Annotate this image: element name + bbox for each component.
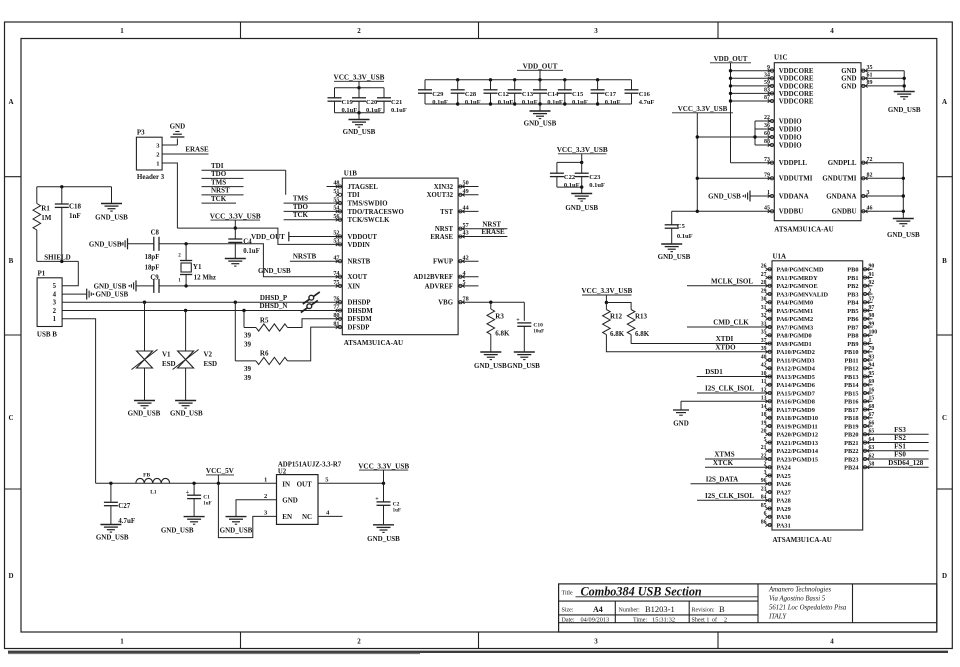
svg-text:PB7: PB7 <box>847 324 858 331</box>
svg-text:VDDCORE: VDDCORE <box>779 68 814 75</box>
svg-text:PA3/PGMNVALID: PA3/PGMNVALID <box>777 291 829 298</box>
svg-text:85: 85 <box>761 503 767 509</box>
svg-text:C28: C28 <box>465 91 477 98</box>
ground GND_USB below cap bank <box>539 104 541 111</box>
net CMD_CLK wire to PA7 <box>687 326 772 328</box>
svg-text:2: 2 <box>53 308 57 315</box>
capacitor C29 <box>424 80 426 90</box>
resistor R13 6.8K <box>606 303 631 310</box>
svg-text:A4: A4 <box>593 605 603 614</box>
ground GND_USB (U1C top right) <box>894 91 915 93</box>
differential pair marker on DHSD_P <box>303 292 320 304</box>
svg-text:GND_USB: GND_USB <box>658 253 691 261</box>
svg-text:PA27: PA27 <box>777 489 791 496</box>
svg-text:GND: GND <box>673 419 689 427</box>
svg-text:19: 19 <box>761 420 767 426</box>
svg-text:0.1uF: 0.1uF <box>677 233 693 240</box>
capacitor C23 <box>581 162 583 173</box>
svg-text:DFSDM: DFSDM <box>348 316 373 323</box>
svg-text:PB5: PB5 <box>847 308 858 315</box>
svg-text:GND: GND <box>282 497 298 505</box>
svg-text:TMS: TMS <box>211 178 226 186</box>
svg-text:PA28: PA28 <box>777 498 791 505</box>
svg-text:PA1/PGMRDY: PA1/PGMRDY <box>777 275 819 282</box>
svg-text:FS2: FS2 <box>894 434 906 442</box>
svg-text:40: 40 <box>761 354 767 360</box>
svg-text:U1A: U1A <box>773 252 787 260</box>
ground GND_USB below C27 <box>100 524 121 526</box>
svg-text:PA25: PA25 <box>777 473 791 480</box>
svg-text:1: 1 <box>53 316 57 323</box>
svg-text:USB B: USB B <box>37 330 57 338</box>
svg-text:GND_USB: GND_USB <box>94 282 127 290</box>
svg-text:ESD: ESD <box>204 360 218 368</box>
svg-text:PA18/PGMD10: PA18/PGMD10 <box>777 415 819 422</box>
svg-text:61: 61 <box>867 73 873 79</box>
svg-text:14: 14 <box>761 404 767 410</box>
wire U1C GND pins to ground bus (top right) <box>861 70 904 72</box>
svg-text:18: 18 <box>761 412 767 418</box>
crystal Y1 12 Mhz <box>185 244 187 261</box>
svg-text:VDDBU: VDDBU <box>779 209 804 216</box>
svg-text:I2S_DATA: I2S_DATA <box>706 475 738 483</box>
ground GND_USB below C5 <box>661 243 682 245</box>
capacitor C15 <box>564 80 566 90</box>
wire U1C GNDPLL/GNDUTMI/GNDANA/GNDBU to ground bus <box>861 162 903 164</box>
svg-text:0.1uF: 0.1uF <box>564 182 580 189</box>
svg-text:TDO/TRACESWO: TDO/TRACESWO <box>348 209 404 216</box>
svg-text:GND_USB: GND_USB <box>128 410 161 418</box>
wire VDDBU pin 45 to VCC bus and C5 <box>672 210 775 212</box>
differential pair marker on DHSD_N <box>301 300 318 312</box>
U1B pin 5 stub <box>458 285 478 287</box>
svg-text:NC: NC <box>302 513 312 521</box>
svg-text:2: 2 <box>264 493 267 500</box>
svg-text:MCLK_ISOL: MCLK_ISOL <box>711 277 753 285</box>
svg-text:GND: GND <box>170 123 186 131</box>
svg-text:39: 39 <box>244 340 252 348</box>
capacitor C20 <box>358 88 360 98</box>
ground port GND_USB at VDDANA pin 1 <box>750 195 774 197</box>
svg-text:NRSTB: NRSTB <box>348 259 371 266</box>
svg-text:4: 4 <box>53 292 57 299</box>
svg-text:VDDIO: VDDIO <box>779 126 803 133</box>
svg-text:4.7uF: 4.7uF <box>639 99 655 106</box>
svg-text:26: 26 <box>761 264 767 270</box>
svg-text:PB13: PB13 <box>844 374 858 381</box>
U1B pin 50 stub <box>458 186 478 188</box>
svg-text:NRST: NRST <box>435 226 454 233</box>
svg-text:27: 27 <box>761 272 767 278</box>
connector P3 Header 3 <box>136 137 162 170</box>
svg-text:ERASE: ERASE <box>185 145 209 153</box>
U1B pin 48 stub <box>327 186 343 188</box>
svg-text:GNDBU: GNDBU <box>832 209 857 216</box>
svg-text:3: 3 <box>594 27 598 35</box>
svg-text:C15: C15 <box>572 91 584 98</box>
svg-text:2: 2 <box>357 638 361 646</box>
svg-text:C5: C5 <box>677 223 686 230</box>
svg-text:C20: C20 <box>366 99 377 106</box>
svg-text:VCC_3.3V_USB: VCC_3.3V_USB <box>210 212 261 220</box>
wire cap bank bottom rail <box>425 103 632 105</box>
svg-text:DFSDP: DFSDP <box>348 325 370 332</box>
wire VBUS from P1 pin 1 to power rail <box>62 319 96 484</box>
svg-text:XOUT: XOUT <box>348 274 368 281</box>
ground GND_USB at U2 pin 2 <box>226 516 247 518</box>
ground GND_USB below C2 <box>373 524 394 526</box>
capacitor C18 1nF <box>61 187 63 204</box>
net FS2 wire from PB21 <box>863 442 929 444</box>
svg-text:R1: R1 <box>41 205 50 213</box>
net I2S_CLK_ISOL wire to PA28 <box>697 499 772 501</box>
svg-text:ATSAM3U1CA-AU: ATSAM3U1CA-AU <box>773 536 832 544</box>
svg-text:C17: C17 <box>605 91 617 98</box>
svg-text:6.8K: 6.8K <box>495 330 510 338</box>
ground port GND_USB at P1 pin 4 <box>86 289 88 300</box>
capacitor C13 <box>514 80 516 90</box>
svg-text:Combo384 USB Section: Combo384 USB Section <box>581 584 702 598</box>
U1B pin 44 stub <box>458 210 478 212</box>
net DSD1 wire to PA13 <box>697 376 772 378</box>
svg-text:VDDPLL: VDDPLL <box>779 160 808 167</box>
svg-text:C19: C19 <box>342 99 354 106</box>
svg-text:C29: C29 <box>432 91 444 98</box>
capacitor C14 <box>539 80 541 90</box>
svg-text:PB2: PB2 <box>847 283 858 290</box>
svg-text:DHSD_N: DHSD_N <box>259 302 287 310</box>
svg-text:4: 4 <box>830 27 834 35</box>
svg-text:PA14/PGMD6: PA14/PGMD6 <box>777 382 815 389</box>
svg-text:VDDIO: VDDIO <box>779 142 803 149</box>
svg-text:18pF: 18pF <box>145 254 160 261</box>
wire VDDIO bracket <box>754 121 756 145</box>
wire C22-C23 bottom rail <box>557 186 582 188</box>
svg-text:GND_USB: GND_USB <box>220 527 253 535</box>
svg-text:C10: C10 <box>533 322 543 328</box>
svg-text:GND_USB: GND_USB <box>96 291 129 299</box>
ground GND_USB below V2 <box>175 400 196 402</box>
svg-text:VCC_3.3V_USB: VCC_3.3V_USB <box>358 462 409 470</box>
svg-text:PA13/PGMD5: PA13/PGMD5 <box>777 374 815 381</box>
net XTDO wire to PA10 <box>606 351 772 353</box>
svg-text:NRST: NRST <box>482 220 501 228</box>
svg-text:C21: C21 <box>391 99 402 106</box>
svg-text:PB4: PB4 <box>847 300 859 307</box>
wire 5V rail from P1 pin 1 <box>96 482 277 484</box>
svg-text:ATSAM3U1CA-AU: ATSAM3U1CA-AU <box>344 339 403 347</box>
svg-text:GND_USB: GND_USB <box>474 362 507 370</box>
svg-text:PB24: PB24 <box>844 465 859 472</box>
wire SHIELD to P1 pin 5 <box>62 261 78 285</box>
svg-text:39: 39 <box>244 374 252 382</box>
svg-text:PA19/PGMD11: PA19/PGMD11 <box>777 423 818 430</box>
svg-text:6: 6 <box>764 511 767 517</box>
svg-text:PB23: PB23 <box>844 456 858 463</box>
inductor L1 FB ferrite bead <box>136 478 170 483</box>
svg-text:U1C: U1C <box>774 54 788 62</box>
capacitor C9 <box>136 285 154 287</box>
net FS0 wire from PB23 <box>863 458 929 460</box>
scan shadow at sheet bottom edge <box>8 651 948 653</box>
svg-text:D: D <box>942 572 947 580</box>
title block frame <box>559 584 937 632</box>
wire VDD_OUT bus to VDDPLL pin 73 <box>731 162 775 164</box>
svg-text:ATSAM3U1CA-AU: ATSAM3U1CA-AU <box>774 225 833 233</box>
svg-text:86: 86 <box>761 519 767 525</box>
svg-text:PA22/PGMD14: PA22/PGMD14 <box>777 448 819 455</box>
svg-text:Amanero Technologies: Amanero Technologies <box>768 587 831 594</box>
net I2S_DATA wire to PA26 <box>691 483 773 485</box>
wire VCC to VDDUTMI pin 79 <box>697 177 774 179</box>
svg-text:5: 5 <box>53 283 57 290</box>
svg-text:P3: P3 <box>137 129 145 137</box>
op-amp U1C ATSAM3U1CA-AU power section box <box>774 63 861 221</box>
svg-text:23: 23 <box>761 486 767 492</box>
svg-text:JTAGSEL: JTAGSEL <box>348 184 379 191</box>
capacitor C21 <box>383 88 385 98</box>
net XTMS wire to PA23 <box>705 458 772 460</box>
resistor R1 1M <box>36 187 38 204</box>
svg-text:SHIELD: SHIELD <box>44 254 70 262</box>
net ERASE wire <box>458 236 507 238</box>
capacitor C27 4.7uF <box>110 483 112 502</box>
svg-text:FB: FB <box>143 472 150 478</box>
svg-text:VBG: VBG <box>438 300 453 307</box>
svg-text:CMD_CLK: CMD_CLK <box>713 319 749 327</box>
svg-text:B: B <box>9 257 14 265</box>
svg-text:D: D <box>8 572 13 580</box>
svg-text:I2S_CLK_ISOL: I2S_CLK_ISOL <box>705 385 754 393</box>
svg-text:56121 Loc Ospedaletto Pisa: 56121 Loc Ospedaletto Pisa <box>769 605 847 612</box>
svg-text:ITALY: ITALY <box>768 614 787 621</box>
wire DHSD_P from P1 pin 3 to U1B pin 76 <box>62 301 342 303</box>
capacitor C2 1uF <box>383 483 385 502</box>
regulator U2 ADP151AUJZ-3.3-R7 <box>277 475 319 525</box>
svg-text:PB0: PB0 <box>847 267 858 274</box>
capacitor C12 <box>490 80 492 90</box>
svg-text:35: 35 <box>867 65 873 71</box>
svg-text:PB6: PB6 <box>847 316 858 323</box>
net NRST wire <box>458 228 507 230</box>
svg-text:GND_USB: GND_USB <box>95 214 128 222</box>
wire VBG from U1B pin 78 <box>458 301 524 303</box>
svg-text:PA12/PGMD4: PA12/PGMD4 <box>777 366 816 373</box>
svg-text:3: 3 <box>594 638 598 646</box>
svg-text:TMS: TMS <box>293 195 308 203</box>
capacitor C22 <box>556 162 558 173</box>
svg-text:FWUP: FWUP <box>433 259 453 266</box>
svg-text:46: 46 <box>867 206 873 212</box>
svg-text:1uF: 1uF <box>203 502 211 507</box>
wire TCK to pin 56 <box>284 219 343 221</box>
svg-text:89: 89 <box>867 80 873 86</box>
svg-text:1: 1 <box>264 476 267 483</box>
svg-text:39: 39 <box>244 331 252 339</box>
wire P1 pin 4 to ground port <box>62 293 87 295</box>
svg-text:XTMS: XTMS <box>714 451 734 459</box>
svg-text:DSD64_128: DSD64_128 <box>888 459 924 467</box>
svg-text:GNDANA: GNDANA <box>826 193 856 200</box>
svg-text:2: 2 <box>724 617 727 623</box>
svg-text:PA24: PA24 <box>777 465 792 472</box>
svg-text:PA30: PA30 <box>777 514 791 521</box>
svg-text:PB17: PB17 <box>844 407 858 414</box>
resistor R6 39 <box>234 302 236 361</box>
svg-text:82: 82 <box>867 173 873 179</box>
svg-text:ESD: ESD <box>162 360 176 368</box>
svg-text:0.1uF: 0.1uF <box>465 99 481 106</box>
svg-text:PB8: PB8 <box>847 333 858 340</box>
svg-text:R13: R13 <box>635 313 648 321</box>
svg-text:C16: C16 <box>639 91 651 98</box>
svg-text:DHSDP: DHSDP <box>348 300 371 307</box>
svg-text:GND_USB: GND_USB <box>565 204 598 212</box>
svg-text:PB10: PB10 <box>844 349 858 356</box>
svg-text:Header 3: Header 3 <box>137 173 165 181</box>
svg-text:ADP151AUJZ-3.3-R7: ADP151AUJZ-3.3-R7 <box>278 461 342 468</box>
svg-text:VDDOUT: VDDOUT <box>348 234 378 241</box>
svg-text:20: 20 <box>761 429 767 435</box>
svg-text:ERASE: ERASE <box>481 228 505 236</box>
svg-text:PB21: PB21 <box>844 440 858 447</box>
resistor R5 39 <box>243 311 245 328</box>
svg-text:0.1uF: 0.1uF <box>522 99 538 106</box>
svg-text:10uF: 10uF <box>533 329 544 334</box>
svg-text:DHSDM: DHSDM <box>348 308 374 315</box>
svg-text:VCC_3.3V_USB: VCC_3.3V_USB <box>557 146 608 154</box>
svg-text:42: 42 <box>761 363 767 369</box>
svg-text:TDO: TDO <box>211 170 227 178</box>
svg-text:PB15: PB15 <box>844 390 858 397</box>
svg-text:GND_USB: GND_USB <box>89 240 122 248</box>
svg-text:Sheet 1: Sheet 1 <box>692 617 710 623</box>
svg-text:1M: 1M <box>41 214 52 222</box>
svg-text:C12: C12 <box>498 91 509 98</box>
capacitor C28 <box>457 80 459 90</box>
wire VDD_OUT bus to VDDCORE pins <box>730 63 732 163</box>
svg-text:TCK/SWCLK: TCK/SWCLK <box>348 217 391 224</box>
svg-text:Revision:: Revision: <box>692 607 715 613</box>
svg-text:A: A <box>8 98 13 106</box>
svg-text:PB14: PB14 <box>844 382 859 389</box>
svg-text:GND_USB: GND_USB <box>161 527 194 535</box>
svg-text:XIN32: XIN32 <box>434 184 454 191</box>
svg-text:VCC_3.3V_USB: VCC_3.3V_USB <box>334 74 385 82</box>
ground GND_USB below C20 <box>358 113 360 119</box>
svg-text:FS1: FS1 <box>894 442 906 450</box>
resistor R12 6.8K <box>605 303 607 310</box>
svg-text:NRSTB: NRSTB <box>293 253 317 261</box>
svg-text:Title: Title <box>562 590 573 596</box>
svg-text:PB12: PB12 <box>844 366 858 373</box>
svg-text:21: 21 <box>761 445 767 451</box>
svg-text:VDDCORE: VDDCORE <box>779 76 814 83</box>
svg-text:PB16: PB16 <box>844 399 858 406</box>
svg-text:OUT: OUT <box>297 480 313 488</box>
svg-text:VDDCORE: VDDCORE <box>779 98 814 105</box>
svg-text:C: C <box>8 414 13 422</box>
ground GND_USB right of C18 <box>111 187 113 203</box>
svg-text:PA11/PGMD3: PA11/PGMD3 <box>777 357 815 364</box>
svg-text:R3: R3 <box>495 313 504 321</box>
svg-text:Y1: Y1 <box>193 263 202 271</box>
transistor V2 ESD diode <box>185 311 187 352</box>
U1B pin 4 stub <box>458 276 478 278</box>
svg-text:PA6/PGMM2: PA6/PGMM2 <box>777 316 814 323</box>
svg-text:PA21/PGMD13: PA21/PGMD13 <box>777 440 819 447</box>
svg-text:18pF: 18pF <box>145 264 160 271</box>
svg-text:DSD1: DSD1 <box>705 368 723 376</box>
svg-text:GND_USB: GND_USB <box>708 192 741 200</box>
svg-text:PA16/PGMD8: PA16/PGMD8 <box>777 399 815 406</box>
svg-text:PA15/PGMD7: PA15/PGMD7 <box>777 390 815 397</box>
net MCLK_ISOL wire to PA2 <box>687 285 772 287</box>
svg-text:32: 32 <box>761 313 767 319</box>
wire VCC_3.3V_USB rail to VDDIN pin 53 <box>177 228 342 244</box>
svg-text:VDDIO: VDDIO <box>779 118 803 125</box>
svg-text:0.1uF: 0.1uF <box>498 99 514 106</box>
net XTDI wire to PA9 <box>631 343 772 345</box>
svg-text:R6: R6 <box>260 350 269 358</box>
svg-text:72: 72 <box>867 157 873 163</box>
svg-text:29: 29 <box>761 288 767 294</box>
svg-text:DHSD_P: DHSD_P <box>260 294 288 302</box>
svg-text:TCK: TCK <box>211 195 227 203</box>
svg-text:GNDPLL: GNDPLL <box>828 160 857 167</box>
svg-text:GND_USB: GND_USB <box>170 410 203 418</box>
svg-text:PA26: PA26 <box>777 481 791 488</box>
capacitor C4 <box>234 228 236 239</box>
wire TMS to pin 55 <box>284 202 343 204</box>
node VCC_3.3V_USB rail (C19-C21 top) <box>335 87 385 89</box>
svg-text:NRST: NRST <box>211 187 230 195</box>
resistor R3 6.8K <box>490 302 492 309</box>
svg-text:VDDIO: VDDIO <box>779 134 803 141</box>
capacitor C5 <box>671 211 673 225</box>
wire TDO to pin 54 <box>284 210 343 212</box>
svg-text:TDI: TDI <box>348 192 360 199</box>
svg-text:IN: IN <box>282 480 290 488</box>
net XTCK wire to PA24 <box>705 466 772 468</box>
svg-text:AD12BVREF: AD12BVREF <box>413 274 453 281</box>
svg-text:C1: C1 <box>203 495 210 501</box>
svg-text:6.8K: 6.8K <box>635 330 650 338</box>
svg-text:L1: L1 <box>150 489 157 495</box>
svg-text:0.1uF: 0.1uF <box>243 248 259 255</box>
svg-text:0.1uF: 0.1uF <box>432 99 448 106</box>
svg-text:FS0: FS0 <box>894 451 906 459</box>
svg-text:GND_USB: GND_USB <box>96 534 129 542</box>
svg-text:VDD_OUT: VDD_OUT <box>714 55 748 63</box>
capacitor C16 <box>631 80 633 90</box>
svg-text:C: C <box>942 414 947 422</box>
svg-text:PA5/PGMM1: PA5/PGMM1 <box>777 308 814 315</box>
svg-text:I2S_CLK_ISOL: I2S_CLK_ISOL <box>705 492 754 500</box>
svg-text:35: 35 <box>761 330 767 336</box>
svg-text:PA31: PA31 <box>777 522 791 529</box>
svg-text:0.1uF: 0.1uF <box>572 99 588 106</box>
capacitor C1 1uF <box>193 483 195 495</box>
svg-text:A: A <box>942 98 947 106</box>
U1B pin 49 stub <box>458 194 478 196</box>
svg-text:0.1uF: 0.1uF <box>589 182 605 189</box>
svg-text:PB22: PB22 <box>844 448 858 455</box>
svg-text:PA17/PGMD9: PA17/PGMD9 <box>777 407 815 414</box>
wire XIN from C9 to U1B pin 75 <box>186 285 342 287</box>
svg-text:Via Agostino Bassi 5: Via Agostino Bassi 5 <box>769 596 826 603</box>
svg-text:C18: C18 <box>69 202 82 210</box>
